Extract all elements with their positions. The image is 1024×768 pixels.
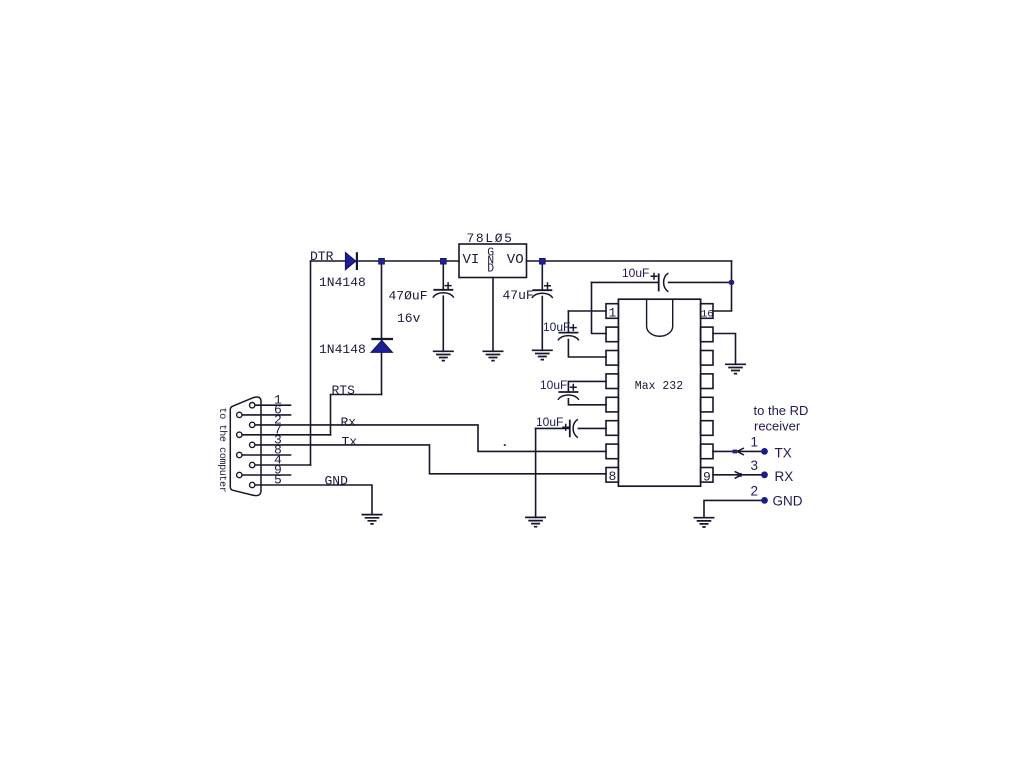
- svg-text:47ØuF: 47ØuF: [389, 289, 428, 304]
- svg-text:1: 1: [609, 305, 617, 320]
- IC U2 Max232 body: [618, 299, 700, 486]
- pin box 13: [701, 374, 713, 389]
- wire DB9 pin 4 stub: [255, 464, 311, 466]
- svg-text:1N4148: 1N4148: [319, 342, 366, 357]
- pin box 6: [606, 421, 618, 436]
- pin box 9: [701, 468, 713, 483]
- svg-text:8: 8: [609, 469, 617, 484]
- ground at chip pin 15: [725, 364, 746, 373]
- svg-text:RX: RX: [775, 469, 794, 484]
- capacitor C1 plates: [558, 333, 579, 341]
- arrow out of RX (points right): [735, 471, 742, 478]
- svg-text:DTR: DTR: [310, 249, 334, 264]
- DB9 pin 8 circle: [237, 452, 242, 457]
- svg-text:2: 2: [751, 484, 759, 499]
- svg-text:Rx: Rx: [341, 415, 357, 430]
- svg-text:receiver: receiver: [754, 419, 801, 434]
- wire DB9 pin 5 to ground: [255, 485, 372, 515]
- wire C4 left leg down to ground: [535, 428, 537, 517]
- svg-text:16v: 16v: [397, 311, 421, 326]
- pin box 8: [606, 468, 618, 483]
- pin box 7: [606, 444, 618, 459]
- wire C1 cap between pins 1 and 3: [568, 311, 606, 357]
- wire C3 left leg down to chip pin 2: [592, 282, 607, 333]
- junction dot at C3 / VCC: [729, 280, 735, 286]
- arrow into TX (points left): [733, 448, 744, 455]
- svg-text:to the RD: to the RD: [754, 403, 809, 418]
- svg-text:10uF: 10uF: [543, 320, 570, 334]
- junction node at 470uF: [441, 258, 447, 264]
- svg-text:1N4148: 1N4148: [319, 275, 366, 290]
- wire Rx from DB9 pin 2 to chip pin 7: [255, 425, 606, 452]
- IC pin boxes left: [606, 304, 713, 482]
- ground under 78L05: [483, 351, 504, 360]
- pin box 15: [701, 327, 713, 342]
- svg-text:RTS: RTS: [332, 383, 356, 398]
- pin box 11: [701, 421, 713, 436]
- terminal dot GND: [761, 497, 768, 504]
- diode D2 1N4148: [371, 339, 393, 352]
- plus sign C2: [570, 384, 577, 391]
- wire Tx from DB9 pin 3 to chip pin 8: [255, 445, 606, 474]
- svg-text:5: 5: [274, 473, 282, 488]
- pin box 4: [606, 374, 618, 389]
- svg-text:VO: VO: [507, 252, 524, 268]
- svg-text:10uF: 10uF: [536, 415, 563, 429]
- junction node at 47uF: [540, 258, 546, 264]
- wire RTS jog to DB9 pin 7: [331, 395, 382, 436]
- DB9 pin 7 circle: [237, 432, 242, 437]
- pin box 2: [606, 327, 618, 342]
- DB9 pin 1 circle: [250, 403, 255, 408]
- svg-text:GND: GND: [773, 493, 803, 508]
- capacitor C3 plates (horizontal): [659, 273, 669, 292]
- DB9 pin 9 circle: [237, 472, 242, 477]
- DB9 connector outline: [230, 397, 261, 496]
- capacitor C6 47uF plates: [532, 290, 553, 298]
- wire 47uF cap branch: [541, 261, 543, 350]
- pin box 12: [701, 397, 713, 412]
- wire DB9 pin 1 stub: [255, 404, 291, 406]
- wire 470uF cap branch: [442, 261, 444, 351]
- diode D1 1N4148: [345, 252, 357, 270]
- wire chip pin 15 to ground: [713, 334, 736, 365]
- svg-text:GND: GND: [325, 473, 349, 488]
- wire C3 10uF top cap horizontal: [592, 281, 732, 283]
- wire chip pin 1 stub: [568, 310, 606, 312]
- DB9 pin 3 circle: [250, 442, 255, 447]
- pin box 14: [701, 351, 713, 366]
- wire chip pin 10 to TX terminal: [713, 450, 765, 452]
- capacitor C4 plates (horizontal): [570, 419, 578, 437]
- stray dot: [504, 444, 506, 446]
- pin box 16: [701, 304, 713, 319]
- ground under C4: [525, 517, 546, 526]
- wire main VCC rail from DTR through regulator: [311, 260, 732, 262]
- svg-text:TX: TX: [775, 446, 792, 461]
- plus sign C3: [651, 273, 658, 280]
- svg-text:78LØ5: 78LØ5: [467, 231, 514, 246]
- svg-text:10uF: 10uF: [622, 266, 649, 280]
- DB9 pin 6 circle: [237, 412, 242, 417]
- svg-text:1: 1: [751, 434, 759, 449]
- plus sign 47uF: [544, 282, 551, 289]
- wire chip pin 9 to RX terminal: [713, 474, 765, 476]
- svg-text:Max 232: Max 232: [635, 380, 683, 393]
- wire DB9 pin 9 stub: [242, 474, 291, 476]
- wire C2 cap between pins 4 and 5: [568, 381, 606, 404]
- wire C4 cap into pin 6: [536, 427, 606, 429]
- wire DB9 pin 7 stub: [242, 434, 331, 436]
- IC U2 notch: [647, 299, 673, 336]
- plus sign C1: [570, 324, 577, 331]
- svg-text:10uF: 10uF: [540, 378, 567, 392]
- svg-text:3: 3: [751, 458, 759, 473]
- pin box 10: [701, 444, 713, 459]
- pin box 5: [606, 397, 618, 412]
- wire RD GND terminal: [704, 500, 765, 517]
- ground under 47uF: [532, 350, 553, 359]
- plus sign C4: [562, 424, 569, 431]
- wire diode D2 branch vertical: [381, 261, 383, 395]
- svg-text:D: D: [487, 262, 494, 275]
- terminal dot RX: [761, 471, 768, 478]
- wire VCC right corner down to pin 16: [713, 261, 732, 311]
- wire DB9 pin 6 stub: [242, 414, 291, 416]
- DB9 pin 2 circle: [250, 422, 255, 427]
- plus sign 470uF: [445, 282, 452, 289]
- capacitor C2 plates: [558, 392, 579, 400]
- DB9 pin 4 circle: [250, 462, 255, 467]
- ground at RD GND: [694, 518, 715, 527]
- svg-text:16: 16: [701, 308, 714, 320]
- svg-text:to the computer: to the computer: [216, 408, 228, 493]
- terminal dot TX: [761, 448, 768, 455]
- wire DTR left vertical down to DB9 pin 4: [310, 261, 312, 465]
- junction node at D2 branch: [379, 258, 385, 264]
- svg-text:47uF: 47uF: [503, 288, 534, 303]
- svg-text:9: 9: [703, 470, 711, 485]
- pin box 3: [606, 351, 618, 366]
- pin box 1: [606, 304, 618, 319]
- capacitor C5 470uF plates: [433, 290, 454, 298]
- regulator U1 78L05 box: [459, 244, 527, 278]
- svg-text:Tx: Tx: [342, 434, 358, 449]
- DB9 pin 5 circle: [250, 482, 255, 487]
- svg-text:VI: VI: [463, 252, 480, 268]
- ground under 470uF: [433, 351, 454, 360]
- wire DB9 pin 8 stub: [242, 454, 291, 456]
- wire 78L05 GND pin: [492, 278, 494, 352]
- ground under DB9 pin5: [362, 515, 383, 524]
